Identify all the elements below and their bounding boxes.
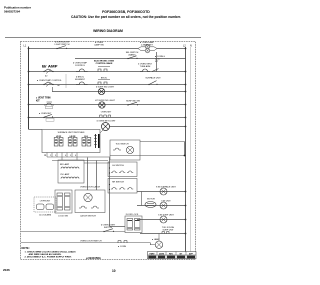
L1 rail: [28, 47, 30, 130]
wire stubs below TB1: [47, 153, 97, 191]
svg-text:3: 3: [55, 155, 56, 157]
switch S5 row7: [43, 114, 54, 121]
svg-text:CLOCK ASM: CLOCK ASM: [39, 214, 51, 217]
svg-text:MOTOR: MOTOR: [147, 199, 155, 201]
svg-text:● VENT TRIM: ● VENT TRIM: [36, 97, 50, 100]
box outline left of clusters: [65, 74, 67, 88]
node junction row6-L1: [28, 104, 30, 106]
wire row5 surface light: [52, 91, 186, 93]
L2 rail: [185, 47, 187, 252]
riser row5: [52, 87, 54, 92]
wire row surface unit 3: [137, 219, 186, 221]
svg-text:Br AMP: Br AMP: [42, 65, 58, 69]
node junction row7-L1: [28, 117, 30, 119]
svg-text:CONTROL BAKE: CONTROL BAKE: [96, 62, 113, 65]
svg-text:DATE: DATE: [159, 252, 165, 255]
N rail: [190, 47, 192, 252]
element E1 broil lamp coil: [61, 167, 79, 169]
svg-text:● SURF IND LIGHT: ● SURF IND LIGHT: [96, 86, 115, 89]
switch blade row3 right: [152, 69, 159, 72]
wire row8 clock lamp: [110, 126, 187, 128]
terminal block TB1 box: [42, 130, 100, 153]
svg-text:● OVEN SET LIGHT: ● OVEN SET LIGHT: [96, 119, 116, 122]
fuse F1 thermal limiter: [43, 69, 53, 78]
svg-text:AND WIRE GAUGE AS SHOWN.: AND WIRE GAUGE AS SHOWN.: [29, 253, 62, 256]
infinite switch box A: [108, 162, 137, 177]
svg-text:LIGHT SWITCH: LIGHT SWITCH: [55, 44, 70, 46]
svg-text:SURF UNIT: SURF UNIT: [162, 230, 174, 232]
svg-text:10: 10: [112, 269, 116, 273]
switch S3 hot surface: [44, 102, 54, 109]
svg-text:● OVEN SET: ● OVEN SET: [39, 112, 52, 115]
svg-text:(BAKE): (BAKE): [129, 53, 136, 56]
svg-text:SWITCH: SWITCH: [104, 227, 113, 229]
lamp DS5 oven light lower: [152, 234, 163, 249]
header publication number text: [4, 6, 32, 14]
svg-text:KIT: KIT: [36, 100, 40, 102]
node junction row8-L2: [185, 126, 187, 128]
label S2 selector switch: [126, 52, 139, 57]
wire row surface unit 2: [137, 205, 186, 207]
svg-text:2. DISCONNECT A.C. POWER SUPP: 2. DISCONNECT A.C. POWER SUPPLY FIRST.: [25, 256, 72, 259]
svg-text:2: 2: [50, 155, 51, 157]
terminal cluster oven set: [100, 112, 112, 118]
svg-text:TUBE ASM: TUBE ASM: [140, 65, 151, 68]
svg-text:WIRING DIAGRAM: WIRING DIAGRAM: [93, 29, 123, 33]
svg-text:● OVEN TEMP CONTROL: ● OVEN TEMP CONTROL: [37, 79, 63, 82]
schematic frame: [21, 42, 196, 260]
node junction row4-L1: [28, 84, 30, 86]
svg-text:& BRACKET: & BRACKET: [141, 43, 154, 46]
oven light assembly box: [110, 140, 140, 160]
svg-text:BROIL: BROIL: [101, 78, 108, 80]
relay contacts oven control broil: [98, 78, 110, 85]
bottom wire row B: [21, 242, 150, 244]
switch S2 selector switch: [127, 56, 137, 59]
wire vertical su link: [141, 192, 143, 206]
wire row2 selector to L2: [75, 58, 186, 60]
wire row4 tod: [140, 233, 186, 235]
node junction su3: [185, 219, 187, 221]
svg-text:RH SWITCH: RH SWITCH: [112, 182, 124, 184]
svg-text:4: 4: [65, 155, 66, 157]
node junction row1-L2: [185, 48, 187, 50]
L1 rail elbow into control box: [29, 129, 42, 131]
relay block box: [55, 190, 72, 218]
lamp DS2 surface ind light: [96, 86, 115, 95]
svg-text:5: 5: [70, 155, 71, 157]
svg-text:SURFACE UNIT: SURFACE UNIT: [145, 77, 161, 80]
wire from lamps box right: [84, 162, 110, 164]
node junction row7-L2: [185, 117, 187, 119]
wire vertical x184.5: [184, 142, 186, 156]
wire row1 L1 to lamp: [29, 48, 139, 50]
wire row4 broil circuit: [29, 84, 187, 86]
svg-text:L1: L1: [24, 45, 27, 48]
oven door lock box: [125, 214, 142, 233]
svg-text:HT SURF IND LIGHT: HT SURF IND LIGHT: [95, 100, 116, 102]
svg-text:LH FRONT: LH FRONT: [40, 201, 51, 203]
svg-text:● OVEN DOOR: ● OVEN DOOR: [55, 41, 70, 44]
thermal switch hump row3 right: [138, 63, 153, 72]
wire row6: [29, 104, 187, 106]
svg-text:6: 6: [75, 155, 76, 157]
component TOD terminals: [162, 227, 175, 234]
svg-text:1. CHECK WIRE COLOR CODING ON: 1. CHECK WIRE COLOR CODING ON ALL LEADS: [25, 250, 77, 253]
svg-text:NOTE:: NOTE:: [22, 246, 30, 250]
wire bus2 below TB1: [52, 160, 108, 162]
wire rowB to lamp: [150, 243, 152, 245]
wire bus below TB1: [47, 156, 110, 158]
top rule: [5, 37, 201, 39]
svg-text:KIT: KIT: [155, 61, 159, 63]
svg-text:OVEN DOOR LATCH: OVEN DOOR LATCH: [80, 186, 100, 189]
wire lock box feed: [110, 226, 126, 228]
label vent trim bold: [36, 97, 50, 103]
svg-text:ELEMENT: ELEMENT: [75, 79, 86, 81]
component X1 connector rowB: [118, 241, 127, 249]
svg-text:P1: P1: [44, 155, 46, 157]
svg-text:BR LAMP: BR LAMP: [60, 163, 70, 166]
svg-text:5995327294: 5995327294: [4, 9, 20, 13]
lamp DS3 hot surface ind: [95, 100, 116, 108]
node junction row6-L2: [185, 104, 187, 106]
thermostat contact K1 bake: [73, 62, 88, 72]
svg-text:DOOR LOCK: DOOR LOCK: [126, 214, 139, 216]
switch S6 oven light switch: [101, 224, 116, 233]
title block table: [148, 252, 197, 259]
connector P2 pair: [68, 136, 77, 146]
label DS1 oven lamp: [140, 41, 155, 46]
svg-text:OVEN DOOR SWITCH: OVEN DOOR SWITCH: [80, 241, 102, 243]
svg-text:LAMP SW: LAMP SW: [94, 44, 104, 47]
lamp DS4 oven set light: [96, 119, 116, 133]
infinite switch box B: [108, 179, 137, 194]
latch motor box: [75, 186, 105, 218]
svg-text:SURFACE UNIT SWITCHES: SURFACE UNIT SWITCHES: [58, 131, 85, 134]
motor M1 oval: [145, 199, 156, 208]
element E2 oven lamp coil: [61, 177, 79, 179]
connector P3 pair: [82, 136, 91, 146]
svg-text:2036: 2036: [3, 268, 10, 272]
bottom wire row A: [21, 231, 125, 233]
svg-text:LH SWITCH: LH SWITCH: [112, 165, 124, 167]
thermostat contact K2 broil: [75, 76, 88, 85]
lamps box BR OV: [58, 160, 84, 183]
node junction su2: [185, 205, 187, 207]
svg-text:OV LAMP: OV LAMP: [60, 173, 70, 176]
label oven light switch row1: [94, 41, 104, 47]
svg-text:OVEN SET: OVEN SET: [101, 112, 112, 114]
wire bus y155.5 to L2: [110, 155, 186, 157]
svg-text:●2: ●2: [45, 75, 48, 78]
node junction row3-L1: [28, 71, 30, 73]
svg-text:FGF366CGSB, FGF366CGTD: FGF366CGSB, FGF366CGTD: [102, 10, 150, 14]
svg-text:TOD SWITCH: TOD SWITCH: [115, 144, 129, 146]
node junction row5-L2: [185, 91, 187, 93]
svg-text:SURF IND SW: SURF IND SW: [126, 101, 140, 103]
wire row3 bake circuit: [29, 71, 187, 73]
lamp DS1 oven lamp pair: [138, 45, 157, 53]
svg-text:● CONN: ● CONN: [118, 245, 126, 248]
node junction row1-L1: [28, 48, 30, 50]
node junction row tod: [185, 233, 187, 235]
wire row7: [29, 117, 187, 119]
switch S1 oven door light switch: [56, 46, 67, 50]
node junction x184.5 y155.5: [184, 155, 186, 157]
terminal strip TB1 right: [94, 134, 99, 148]
relay contacts oven control bake: [94, 61, 114, 72]
heater HE3 surface unit: [158, 215, 174, 224]
svg-text:CONTROL: CONTROL: [75, 65, 86, 67]
switch S4 right row6: [126, 101, 140, 106]
wire row surface unit 1: [137, 191, 186, 193]
node junction row3-L2: [185, 71, 187, 73]
svg-text:6 IN SURF UNIT: 6 IN SURF UNIT: [158, 215, 174, 217]
wire assy to rail: [140, 141, 185, 143]
wire vertical to lower right: [109, 158, 111, 227]
heater HE1 surface unit: [156, 186, 176, 196]
node junction row4-L2: [185, 84, 187, 86]
label S1 oven door light switch: [55, 41, 70, 47]
svg-text:CAUTION: Use the part number o: CAUTION: Use the part number on all orde…: [71, 15, 181, 19]
switch S7 surface unit row4: [145, 77, 161, 86]
svg-text:LATCH SWITCH: LATCH SWITCH: [80, 215, 96, 218]
vertical riser at 157: [156, 52, 158, 72]
clock module dashed box: [34, 197, 56, 217]
note block: [22, 246, 77, 259]
connector P1 pair: [54, 136, 63, 146]
svg-text:μ 6941058A: μ 6941058A: [86, 256, 101, 260]
node junction su1: [185, 191, 187, 193]
svg-text:8 IN SURFACE UNIT: 8 IN SURFACE UNIT: [156, 186, 176, 189]
wire row1 lamp to L2: [157, 48, 186, 50]
svg-text:PART: PART: [149, 252, 155, 255]
heater HE2 surface unit: [160, 201, 171, 210]
svg-text:LOCK SW: LOCK SW: [58, 216, 68, 218]
fuse F2 thermal limiter broil: [43, 82, 60, 87]
